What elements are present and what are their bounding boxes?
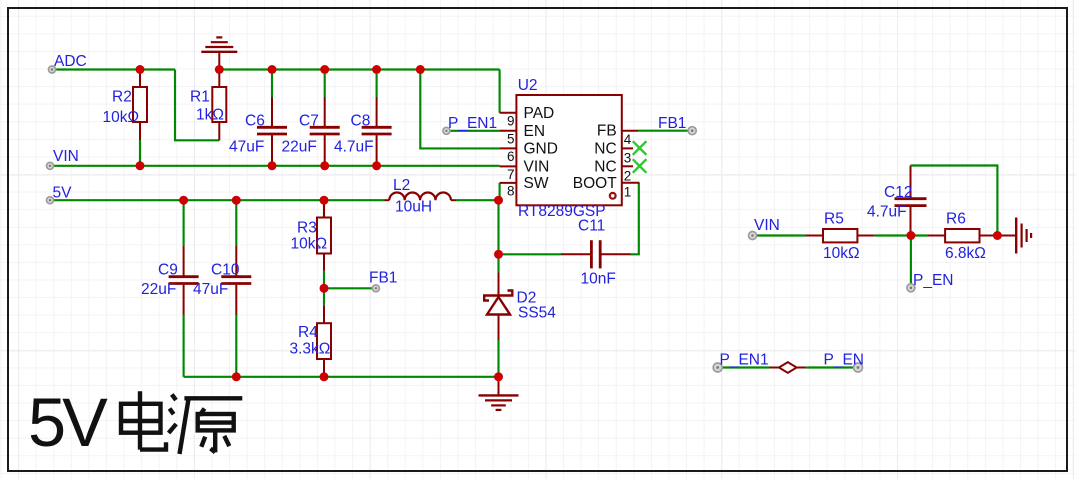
resistor R6 6.8k horizontal	[928, 211, 997, 262]
wire VIN right net	[753, 234, 807, 236]
svg-text:P_EN: P_EN	[824, 351, 865, 368]
earth ground above R1	[201, 37, 237, 69]
pin 7 VIN stub	[500, 158, 550, 182]
wire R3 bottom to FB1 junction	[323, 271, 325, 289]
wire C10 bottom connection	[235, 314, 237, 377]
wire BOOT stub green	[638, 182, 641, 184]
svg-text:10nF: 10nF	[581, 271, 616, 288]
wire FB1 junction to R4	[323, 288, 325, 306]
junction R1 top	[215, 65, 224, 74]
svg-text:C7: C7	[299, 113, 319, 130]
svg-text:P_EN1: P_EN1	[448, 115, 497, 132]
svg-text:3.3kΩ: 3.3kΩ	[290, 340, 331, 357]
wire C9 top connection	[183, 200, 185, 246]
svg-text:C12: C12	[884, 184, 912, 201]
wire P_EN1 to U2 pin 5	[446, 130, 499, 132]
svg-text:22uF: 22uF	[282, 139, 317, 156]
wire R4 bottom to ground net	[323, 372, 325, 377]
svg-text:EN: EN	[524, 123, 546, 140]
wire 5V net left of L2	[50, 199, 385, 201]
node FB1 pin mid	[372, 285, 379, 292]
node P_EN1 flag pin	[713, 363, 722, 372]
wire U2 pin 8 down to SW junction	[499, 183, 501, 200]
wire C9 bottom connection	[183, 314, 185, 377]
wire SW node L2 to junction	[456, 199, 499, 201]
svg-text:P_EN: P_EN	[913, 272, 954, 289]
svg-text:C9: C9	[158, 262, 178, 279]
capacitor C9 22uF	[141, 246, 199, 315]
wire P_EN drop from junction	[910, 236, 912, 288]
junction R6 right gnd	[993, 231, 1002, 240]
svg-text:FB: FB	[597, 123, 617, 140]
svg-text:R5: R5	[824, 211, 844, 228]
svg-text:R2: R2	[112, 89, 132, 106]
inductor L2 10uH	[385, 177, 457, 216]
svg-text:6.8kΩ: 6.8kΩ	[945, 245, 986, 262]
capacitor C10 47uF	[193, 246, 251, 315]
pin 5 EN stub	[500, 123, 545, 147]
junction R3 top 5V	[320, 196, 329, 205]
svg-text:47uF: 47uF	[193, 281, 228, 298]
node P_EN1 pin	[443, 127, 450, 134]
junction C6 bottom VIN	[268, 161, 277, 170]
wire C12 top over to ground column	[911, 166, 998, 236]
svg-text:1kΩ: 1kΩ	[196, 107, 224, 124]
wire GND net drop to U2 pin 9	[499, 70, 501, 113]
svg-text:10kΩ: 10kΩ	[291, 236, 328, 253]
pin 1 BOOT stub	[573, 175, 640, 200]
svg-text:4.7uF: 4.7uF	[334, 139, 374, 156]
svg-text:C6: C6	[245, 113, 265, 130]
svg-text:10kΩ: 10kΩ	[103, 109, 140, 126]
svg-text:U2: U2	[518, 77, 538, 94]
ground right rotated	[997, 218, 1031, 254]
svg-text:5: 5	[507, 132, 515, 147]
junction C6 top	[268, 65, 277, 74]
svg-text:2: 2	[624, 169, 632, 184]
pin 4 FB stub	[597, 123, 638, 148]
svg-text:47uF: 47uF	[229, 139, 264, 156]
no-connect X pin 2	[633, 159, 647, 173]
svg-text:4.7uF: 4.7uF	[867, 203, 907, 220]
wire SW vertical to C11/D2	[497, 200, 499, 272]
wire GND top net horizontal	[219, 68, 499, 70]
svg-text:R6: R6	[946, 211, 966, 228]
node 5V pin	[47, 197, 54, 204]
svg-text:L2: L2	[393, 177, 410, 194]
svg-text:BOOT: BOOT	[573, 175, 617, 192]
wire R3 top connection	[323, 200, 325, 218]
svg-text:4: 4	[624, 132, 632, 147]
wire ADC net down-right to R1 bottom	[175, 70, 219, 141]
svg-text:GND: GND	[524, 140, 558, 157]
svg-text:NC: NC	[594, 140, 616, 157]
svg-text:SW: SW	[524, 175, 549, 192]
title hanzi yuan	[169, 394, 243, 454]
junction C7 bottom VIN	[320, 161, 329, 170]
svg-text:5V: 5V	[53, 185, 73, 202]
diode D2 SS54 schottky	[484, 273, 556, 341]
svg-text:R1: R1	[190, 89, 210, 106]
svg-text:7: 7	[507, 167, 515, 182]
capacitor C7 22uF	[282, 74, 340, 166]
svg-text:R4: R4	[298, 324, 318, 341]
svg-text:VIN: VIN	[53, 148, 79, 165]
wire C11 left	[499, 253, 562, 255]
wire FB pin to FB1 flag	[638, 130, 692, 132]
junction C8 bottom VIN	[372, 161, 381, 170]
capacitor C11 10nF	[561, 218, 631, 288]
svg-text:9: 9	[507, 114, 515, 129]
no-connect X pin 3	[633, 141, 647, 155]
svg-text:P_EN1: P_EN1	[720, 351, 769, 368]
junction R4 bottom gnd	[320, 372, 329, 381]
wire C11 right to BOOT	[631, 183, 639, 254]
svg-text:10uH: 10uH	[395, 199, 432, 216]
resistor R1 1k	[190, 70, 226, 141]
svg-text:R3: R3	[297, 220, 317, 237]
svg-text:SS54: SS54	[518, 305, 556, 322]
svg-text:VIN: VIN	[754, 217, 780, 234]
wire D2 cathode lead join	[497, 340, 499, 377]
junction C9 top 5V	[179, 196, 188, 205]
wire FB1 stub to pin	[324, 287, 376, 289]
svg-text:C8: C8	[351, 113, 371, 130]
wire C10 top connection	[235, 200, 237, 246]
junction C10 bottom gnd	[232, 372, 241, 381]
junction SW node	[494, 196, 503, 205]
capacitor C6 47uF	[229, 74, 287, 166]
junction FB1 node	[320, 284, 329, 293]
node FB1 pin right of U2	[688, 127, 696, 135]
svg-text:5V: 5V	[28, 384, 108, 461]
wire GND net branch to U2 pin 6	[420, 70, 499, 149]
resistor R2 10k	[103, 70, 148, 166]
svg-text:PAD: PAD	[524, 105, 555, 122]
pin 2 NC stub	[594, 158, 633, 183]
ground below D2	[479, 377, 519, 410]
net tie P_EN1 / P_EN	[718, 362, 858, 373]
svg-text:10kΩ: 10kΩ	[823, 245, 860, 262]
junction R5 R6 C12	[906, 231, 915, 240]
resistor R4 3.3k	[290, 306, 332, 376]
pin 8 SW stub	[500, 175, 549, 199]
node VIN pin	[47, 162, 54, 169]
pin 3 NC stub	[594, 140, 633, 165]
node ADC pin	[49, 66, 56, 73]
svg-text:FB1: FB1	[658, 115, 686, 132]
op-amp U2 RT8289GSP body	[516, 77, 621, 220]
wire bottom ground net horizontal	[184, 376, 499, 378]
svg-text:FB1: FB1	[369, 270, 397, 287]
svg-text:22uF: 22uF	[141, 281, 176, 298]
node P_EN pin	[907, 284, 915, 292]
junction R2 top	[136, 65, 145, 74]
junction C8 top	[372, 65, 381, 74]
svg-text:6: 6	[507, 149, 515, 164]
net pin circles	[47, 66, 915, 372]
junction GND branch	[416, 65, 425, 74]
wire ADC net horizontal	[52, 68, 175, 70]
svg-text:3: 3	[624, 151, 632, 166]
svg-text:VIN: VIN	[524, 158, 550, 175]
junction C10 top 5V	[232, 196, 241, 205]
pin 9 PAD stub	[500, 105, 555, 129]
resistor R5 10k horizontal	[806, 211, 875, 262]
node P_EN flag pin	[854, 363, 863, 372]
junction R2 bottom VIN	[136, 161, 145, 170]
wire R5 to junction	[875, 234, 911, 236]
wire junction to R6	[911, 234, 928, 236]
svg-text:8: 8	[507, 183, 515, 198]
capacitor C12 4.7uF	[867, 166, 927, 236]
junction SW C11	[494, 250, 503, 259]
svg-text:NC: NC	[594, 158, 616, 175]
svg-text:C10: C10	[211, 262, 240, 279]
svg-text:ADC: ADC	[54, 53, 87, 70]
svg-text:1: 1	[624, 184, 632, 199]
resistor R3 10k	[291, 200, 332, 271]
wire VIN net horizontal to U2 pin 7	[50, 165, 500, 167]
title hanzi dian	[121, 391, 166, 449]
node VIN pin right	[749, 232, 757, 240]
pin 6 GND stub	[500, 140, 558, 164]
junction D2 bottom gnd	[494, 372, 503, 381]
junction C7 top	[320, 65, 329, 74]
svg-text:C11: C11	[578, 218, 605, 235]
capacitor C8 4.7uF	[334, 74, 392, 166]
